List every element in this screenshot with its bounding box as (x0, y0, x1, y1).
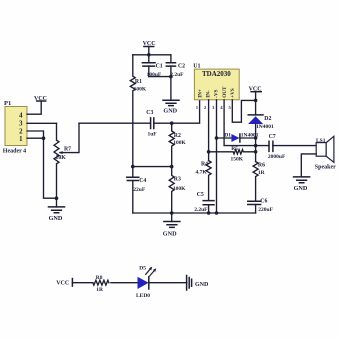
ground under speaker (294, 177, 310, 192)
ground led row (187, 276, 209, 291)
diode D2 (248, 100, 274, 161)
junction left (131, 165, 135, 169)
resistor R4 (196, 161, 212, 201)
svg-text:R4: R4 (201, 162, 208, 168)
svg-text:GND: GND (49, 215, 63, 222)
resistor R2 (169, 123, 186, 166)
capacitor C7 (268, 134, 316, 160)
capacitor C3 (146, 110, 157, 137)
op-amp U1 TDA2030 (193, 64, 239, 110)
svg-text:GND: GND (294, 185, 308, 192)
svg-text:D1: D1 (224, 133, 231, 139)
junction rail R2 (170, 121, 174, 125)
junction out node (254, 144, 258, 148)
wire C1-C2 bottoms (149, 76, 171, 78)
resistor R3 (169, 167, 186, 213)
svg-text:LED0: LED0 (136, 293, 150, 299)
svg-text:1R: 1R (258, 170, 266, 176)
junction C5 gnd (207, 211, 211, 215)
capacitor C6 (248, 199, 274, 213)
junction pin2/R5 (207, 150, 211, 154)
capacitor C5 (194, 192, 214, 213)
svg-text:D2: D2 (264, 116, 271, 122)
capacitor C1 (142, 55, 162, 78)
power VCC led row (56, 279, 72, 287)
wire top rail (133, 54, 171, 56)
wire R8 to LED (111, 282, 138, 284)
svg-text:C4: C4 (139, 178, 146, 184)
svg-text:GND: GND (163, 108, 177, 115)
svg-text:4: 4 (19, 112, 23, 119)
svg-text:Speaker: Speaker (315, 165, 336, 171)
svg-text:22uF: 22uF (133, 187, 146, 193)
wire speaker to gnd (301, 154, 316, 177)
svg-text:2: 2 (204, 105, 207, 110)
svg-text:100K: 100K (173, 140, 186, 146)
wire to ground row (44, 138, 57, 198)
svg-text:R3: R3 (174, 176, 181, 182)
junction (169, 75, 173, 79)
svg-text:P1: P1 (4, 100, 11, 107)
svg-text:100K: 100K (134, 86, 147, 92)
svg-text:4: 4 (220, 105, 223, 110)
svg-text:10K: 10K (56, 155, 67, 161)
junction pin3 gnd rail (215, 211, 219, 215)
wire LED to gnd (150, 282, 187, 284)
junction R5 out (254, 150, 258, 154)
resistor R8 (93, 275, 109, 293)
power VCC right (249, 87, 262, 101)
wire pin5 to VCC (232, 100, 255, 122)
ground under R7 (49, 198, 65, 222)
svg-text:2: 2 (19, 128, 23, 135)
svg-text:C2: C2 (178, 64, 185, 70)
wire pin4 to VCC (27, 101, 41, 114)
svg-text:R2: R2 (174, 133, 181, 139)
svg-text:R5: R5 (231, 146, 238, 152)
svg-text:D5: D5 (139, 266, 146, 272)
wire pin1 (27, 137, 44, 139)
svg-text:4.7K: 4.7K (196, 170, 208, 176)
svg-text:1: 1 (19, 136, 23, 143)
svg-text:C1: C1 (156, 64, 163, 70)
svg-text:+VS: +VS (230, 88, 236, 98)
svg-text:GND: GND (195, 282, 209, 288)
svg-text:OUT: OUT (222, 86, 228, 98)
svg-text:1R: 1R (96, 287, 104, 293)
wire pin3 (27, 122, 57, 124)
svg-text:R8: R8 (96, 275, 103, 281)
wire node C4-R2 (133, 166, 172, 168)
speaker LS1 (315, 136, 336, 170)
svg-text:C3: C3 (146, 110, 153, 116)
ground center (163, 213, 180, 238)
wire pin2 (27, 131, 44, 138)
svg-text:TDA2030: TDA2030 (202, 70, 231, 78)
capacitor C2 (166, 55, 185, 78)
svg-text:220uF: 220uF (258, 207, 273, 213)
junction VCC rail (147, 53, 151, 57)
svg-text:GND: GND (163, 231, 177, 238)
junction pins 1-2 (42, 136, 46, 140)
svg-text:1N4001: 1N4001 (256, 124, 274, 130)
diode D1 (217, 133, 259, 142)
ground under C2 (163, 77, 179, 115)
svg-text:R6: R6 (258, 162, 265, 168)
svg-text:C7: C7 (269, 134, 276, 140)
power VCC top (143, 41, 156, 55)
wiper of R7 (60, 123, 79, 152)
svg-text:3: 3 (19, 121, 23, 128)
junction VCC D2 (254, 99, 258, 103)
capacitor C4 (127, 167, 147, 213)
resistor R7 (54, 123, 71, 198)
junction D1 out (254, 136, 258, 140)
wire vcc to R8 (72, 282, 93, 284)
svg-text:Header 4: Header 4 (3, 148, 26, 154)
svg-text:IN+: IN+ (197, 89, 203, 98)
svg-text:R1: R1 (135, 79, 142, 85)
svg-text:1: 1 (196, 105, 199, 110)
svg-text:C5: C5 (197, 192, 204, 198)
wire ground rail (133, 212, 256, 214)
svg-text:100K: 100K (173, 186, 186, 192)
svg-text:R7: R7 (64, 146, 71, 152)
junction rail R3 (170, 211, 174, 215)
pin3 column wire (216, 100, 218, 213)
junction pin3 D1 (215, 136, 219, 140)
wire input rail (79, 100, 200, 123)
resistor R5 (209, 146, 256, 163)
resistor R6 (253, 162, 266, 202)
junction right (170, 165, 174, 169)
resistor R1 column (130, 55, 147, 167)
svg-text:VCC: VCC (56, 280, 69, 286)
svg-text:C6: C6 (260, 199, 267, 205)
svg-text:IN-: IN- (206, 90, 212, 98)
pin2 column wire (208, 100, 210, 161)
svg-text:2000uF: 2000uF (268, 154, 286, 160)
svg-text:1uF: 1uF (148, 131, 158, 137)
wire OUT pin4 (224, 100, 269, 146)
svg-text:3: 3 (212, 105, 215, 110)
connector P1 (3, 100, 27, 154)
svg-text:150K: 150K (231, 157, 244, 163)
svg-text:5: 5 (229, 105, 232, 110)
LED D5 (136, 266, 156, 300)
svg-text:2.2uF: 2.2uF (194, 207, 208, 213)
svg-text:VCC: VCC (34, 96, 47, 102)
power VCC header (34, 96, 47, 102)
junction R7 bottom (55, 196, 59, 200)
svg-text:-VS: -VS (214, 89, 220, 97)
